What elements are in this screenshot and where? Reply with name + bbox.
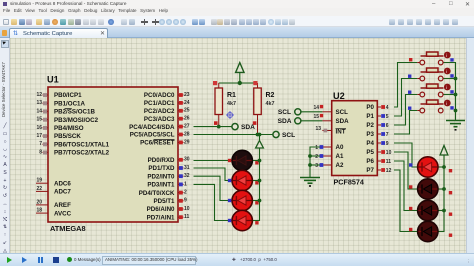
wire PD1 to LED D2 <box>194 168 233 181</box>
LED D4 (on, red) <box>228 210 260 230</box>
svg-text:28: 28 <box>184 131 190 137</box>
LED D6 (off) <box>409 179 452 199</box>
wire P2 to button 3 <box>394 95 417 126</box>
wire P4 to LED D5 <box>394 143 418 167</box>
svg-text:A0: A0 <box>336 144 344 151</box>
terminal SDA <box>232 124 255 132</box>
svg-text:26: 26 <box>184 116 190 122</box>
U1 left pins ADC6 ADC7 AREF AVCC <box>36 178 72 218</box>
svg-text:9: 9 <box>184 198 187 204</box>
push button 3 <box>408 84 454 97</box>
svg-text:SCL: SCL <box>282 132 295 139</box>
power terminal VCC arrow on left LED rail <box>256 135 264 161</box>
svg-text:10: 10 <box>184 206 190 212</box>
svg-text:13: 13 <box>315 126 321 132</box>
terminal SCL near U2 <box>278 109 323 116</box>
left LED supply rail wire <box>252 161 260 221</box>
svg-text:PD0/RXD: PD0/RXD <box>148 157 175 164</box>
svg-text:SDA: SDA <box>336 118 350 125</box>
svg-text:11: 11 <box>184 214 190 220</box>
U2 left pin 15 SDA <box>313 114 349 125</box>
svg-text:27: 27 <box>184 124 190 130</box>
wire P3 to button 4 <box>394 111 417 135</box>
svg-text:4k7: 4k7 <box>266 101 275 107</box>
resistor R1 4k7 <box>213 81 236 127</box>
svg-text:PC6/RESET: PC6/RESET <box>140 140 175 147</box>
svg-text:2: 2 <box>184 190 187 196</box>
svg-text:32: 32 <box>184 173 190 179</box>
svg-text:P1: P1 <box>366 113 374 120</box>
svg-text:P3: P3 <box>366 131 374 138</box>
LED D1 (off, black) <box>228 150 262 170</box>
svg-text:24: 24 <box>184 100 190 106</box>
ground symbol for buttons <box>446 121 465 130</box>
junction of LED rail on SCL wire <box>258 133 262 137</box>
svg-text:PD7/AIN1: PD7/AIN1 <box>147 214 175 221</box>
svg-text:ADC6: ADC6 <box>54 180 71 187</box>
svg-text:30: 30 <box>184 157 190 163</box>
blue crosshair marker <box>226 111 234 119</box>
svg-text:PB6/TOSC1/XTAL1: PB6/TOSC1/XTAL1 <box>54 141 110 148</box>
LED D2 (on, red) <box>228 170 262 190</box>
microcontroller U1 ATMEGA8 body <box>47 75 178 234</box>
LED D8 (off) <box>409 221 452 241</box>
wire PD3 to LED D4 <box>194 184 233 220</box>
svg-text:PC5/ADC5/SCL: PC5/ADC5/SCL <box>130 132 175 139</box>
svg-text:PB5/SCK: PB5/SCK <box>54 133 81 140</box>
svg-text:A1: A1 <box>336 153 344 160</box>
svg-text:9: 9 <box>386 141 389 147</box>
junction at R2 bottom <box>256 133 260 137</box>
svg-text:P5: P5 <box>366 149 374 156</box>
svg-text:16: 16 <box>36 125 42 131</box>
svg-text:SDA: SDA <box>241 124 255 131</box>
power rail wire between R1 and R2 tops <box>219 82 258 84</box>
svg-text:14: 14 <box>36 108 42 114</box>
svg-text:PC2/ADC2: PC2/ADC2 <box>144 108 175 115</box>
svg-text:17: 17 <box>36 133 42 139</box>
svg-text:i: i <box>446 69 447 74</box>
svg-text:PB1/OC1A: PB1/OC1A <box>54 100 85 107</box>
svg-text:20: 20 <box>36 199 42 205</box>
svg-text:10: 10 <box>386 150 392 156</box>
button common ground wire <box>443 63 455 121</box>
wire P7 to LED D8 <box>394 170 418 232</box>
LED D3 (on, red) <box>228 190 262 210</box>
svg-text:12: 12 <box>36 92 42 98</box>
svg-text:2: 2 <box>315 154 318 160</box>
svg-text:29: 29 <box>184 139 190 145</box>
U1 right pins PC0-PC6 numbers 23-29 <box>129 92 190 147</box>
svg-text:A2: A2 <box>336 162 344 169</box>
svg-text:22: 22 <box>36 186 42 192</box>
U1 right pins PD0-PD7 numbers 30,31,32,1,2,9,10,11 <box>139 157 190 222</box>
svg-text:PC0/ADC0: PC0/ADC0 <box>144 92 175 99</box>
IO expander U2 PCF8574 body <box>332 91 378 187</box>
svg-text:4k7: 4k7 <box>227 101 236 107</box>
ground symbol below A0-A2 <box>300 178 320 187</box>
svg-text:PB4/MISO: PB4/MISO <box>54 125 84 132</box>
svg-text:15: 15 <box>313 114 319 120</box>
LED D5 (on, red) <box>409 157 452 177</box>
svg-text:5: 5 <box>386 114 389 120</box>
svg-text:18: 18 <box>36 208 42 214</box>
svg-text:13: 13 <box>36 100 42 106</box>
svg-text:PD4/T0/XCK: PD4/T0/XCK <box>139 190 175 197</box>
svg-text:14: 14 <box>313 105 319 111</box>
svg-text:P7: P7 <box>366 167 374 174</box>
svg-text:R2: R2 <box>266 92 275 99</box>
svg-text:31: 31 <box>184 165 190 171</box>
svg-text:1: 1 <box>184 181 187 187</box>
wire P1 to button 2 <box>394 79 417 117</box>
wire P5 to LED D6 <box>394 152 418 189</box>
svg-text:3: 3 <box>315 163 318 169</box>
svg-text:4: 4 <box>386 105 389 111</box>
svg-text:11: 11 <box>386 159 392 165</box>
svg-text:25: 25 <box>184 108 190 114</box>
U2 left pins A0 A1 A2 <box>315 144 344 169</box>
push button 4 <box>408 100 454 113</box>
U2 right pins P0-P7 numbers 4,5,6,7,9,10,11,12 <box>366 104 391 174</box>
svg-text:12: 12 <box>386 168 392 174</box>
svg-text:AVCC: AVCC <box>54 210 72 217</box>
svg-text:15: 15 <box>36 117 42 123</box>
svg-text:PB3/MOSI/OC2: PB3/MOSI/OC2 <box>54 117 99 124</box>
svg-text:i: i <box>446 101 447 106</box>
svg-text:PD1/TXD: PD1/TXD <box>148 165 175 172</box>
LED D7 (off) <box>409 200 452 220</box>
svg-text:PD3/INT1: PD3/INT1 <box>147 182 175 189</box>
svg-text:PC1/ADC1: PC1/ADC1 <box>144 100 175 107</box>
svg-text:ATMEGA8: ATMEGA8 <box>50 224 86 233</box>
svg-text:PB0/ICP1: PB0/ICP1 <box>54 92 82 99</box>
U1 left pins PB0-PB7 with pin numbers 12-17,7,8 <box>36 92 109 157</box>
svg-text:PC3/ADC3: PC3/ADC3 <box>144 116 175 123</box>
svg-text:i: i <box>446 53 447 58</box>
power terminal VCC arrow above R1/R2 <box>236 63 244 86</box>
U2 left pin 13 INT <box>315 126 346 135</box>
svg-text:8: 8 <box>39 149 42 155</box>
svg-text:i: i <box>446 85 447 90</box>
svg-text:PD5/T1: PD5/T1 <box>154 198 176 205</box>
svg-text:PB7/TOSC2/XTAL2: PB7/TOSC2/XTAL2 <box>54 150 110 157</box>
svg-text:P6: P6 <box>366 158 374 165</box>
svg-text:P4: P4 <box>366 140 374 147</box>
svg-text:PD6/AIN0: PD6/AIN0 <box>147 206 175 213</box>
wire PC5/SCL to R2 bottom and SCL terminal <box>194 134 273 136</box>
svg-text:PCF8574: PCF8574 <box>334 178 364 187</box>
svg-text:1: 1 <box>315 145 318 151</box>
svg-text:6: 6 <box>386 123 389 129</box>
svg-text:SDA: SDA <box>278 118 292 125</box>
terminal SCL <box>273 131 295 139</box>
junction at R1 bottom <box>217 125 221 129</box>
svg-text:PB2/SS/OC1B: PB2/SS/OC1B <box>54 109 95 116</box>
wire P6 to LED D7 <box>394 161 418 211</box>
svg-text:P2: P2 <box>366 122 374 129</box>
svg-text:7: 7 <box>39 141 42 147</box>
svg-text:AREF: AREF <box>54 202 71 209</box>
svg-text:7: 7 <box>386 132 389 138</box>
svg-text:SCL: SCL <box>278 109 291 116</box>
svg-text:P0: P0 <box>366 104 374 111</box>
wire PD0 to LED D1 <box>194 160 233 162</box>
svg-text:PD2/INT0: PD2/INT0 <box>147 173 175 180</box>
svg-text:R1: R1 <box>227 92 236 99</box>
svg-text:U1: U1 <box>47 75 59 85</box>
svg-text:19: 19 <box>36 178 42 184</box>
terminal SDA near U2 <box>278 118 323 125</box>
wire PD2 to LED D3 <box>194 176 233 200</box>
svg-text:ADC7: ADC7 <box>54 189 71 196</box>
U2 left pin 14 SCL <box>313 105 348 116</box>
svg-text:INT: INT <box>336 129 346 136</box>
push button 1 <box>409 52 456 79</box>
wire PC4/SDA to R1 bottom and SDA terminal <box>194 126 232 128</box>
wire P0 to button 1 <box>394 63 417 108</box>
junction dots on button ground wire <box>454 77 458 81</box>
right LED supply rail wire <box>437 167 444 232</box>
svg-text:U2: U2 <box>333 91 345 101</box>
push button 2 <box>408 68 456 95</box>
resistor R2 4k7 <box>253 81 275 135</box>
wire A0 A1 A2 common to ground <box>308 147 320 178</box>
power terminal VCC arrow above right LED rail <box>440 146 448 168</box>
svg-text:23: 23 <box>184 92 190 98</box>
svg-text:PC4/ADC4/SDA: PC4/ADC4/SDA <box>129 124 175 131</box>
svg-text:SCL: SCL <box>336 109 349 116</box>
